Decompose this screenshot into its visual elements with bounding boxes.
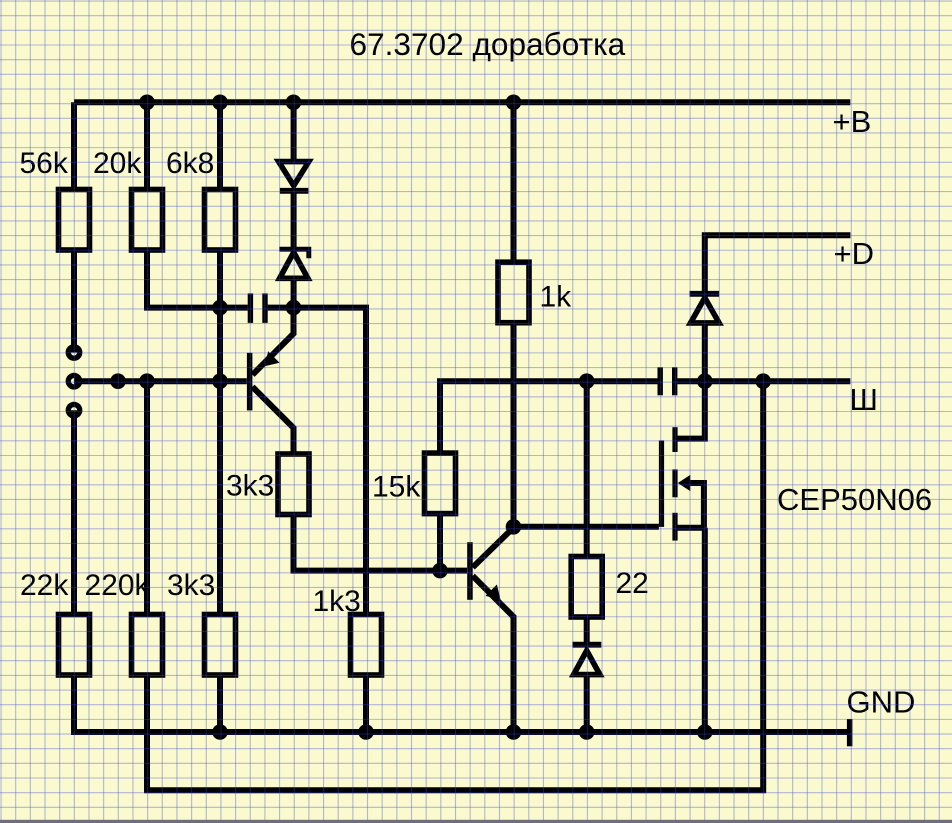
svg-text:22: 22	[616, 567, 649, 600]
wire +B top supply rail	[74, 99, 850, 105]
junction dot segment B / MOSFET drain	[697, 373, 713, 389]
resistor R1 56k	[59, 190, 90, 251]
junction dot segment A / 220k	[139, 373, 155, 389]
resistor R8 1k3	[351, 615, 382, 676]
transistor Q2 base bar	[467, 542, 473, 600]
wire node Ш segment B left part from 15k corner to C2	[440, 381, 658, 453]
connector pin 3 (open circle terminal)	[66, 402, 83, 419]
svg-text:56k: 56k	[20, 147, 69, 180]
wire 56k bottom lead to pin 1	[71, 250, 77, 353]
junction dot top rail / 6k8	[212, 95, 228, 111]
wire pin 3 down to 22k	[71, 410, 77, 614]
wire gate line to MOSFET gate	[514, 524, 659, 530]
wire MOSFET source down to GND rail	[702, 528, 708, 732]
wire node Ш segment B right part to terminal	[677, 378, 850, 384]
wire GND rail from 22k corner to terminal	[74, 675, 847, 732]
svg-text:+D: +D	[834, 236, 875, 271]
capacitor C2 plates	[660, 367, 675, 395]
MOSFET Q3 body stub with corner to source	[688, 483, 704, 528]
transistor Q1 emitter lead	[253, 308, 294, 375]
junction dot segment B / right return wire	[755, 373, 771, 389]
transistor Q2 emitter arrow	[486, 585, 501, 600]
junction dot GND / D4	[579, 724, 595, 740]
connector pin 2 (open circle terminal)	[66, 373, 83, 390]
resistor R3 6k8	[205, 190, 236, 251]
wire 6k8 column down through nodes to 3k3 body	[217, 250, 223, 615]
junction dot top rail / D1	[286, 95, 302, 111]
wire node Ш segment A from pin 2 to Q1 base	[74, 378, 247, 384]
resistor R5 220k	[132, 615, 163, 676]
wire 22 resistor top lead from node Ш	[584, 381, 590, 556]
transistor Q1 base bar	[247, 353, 253, 411]
resistor R4 22k	[59, 615, 90, 676]
svg-text:220k: 220k	[85, 569, 151, 602]
junction dot cap line / 6k8 column	[212, 300, 228, 316]
wire C1 right plate to node, right and down to 1k3	[268, 308, 366, 615]
transistor Q1 collector lead down to 3k3	[252, 387, 293, 454]
wire 20k top lead	[144, 102, 150, 189]
resistor R11 22	[571, 557, 602, 618]
junction dot top rail / 1k	[506, 95, 522, 111]
resistor R9 15k	[425, 453, 456, 513]
wire D2 anode down to node	[291, 278, 297, 307]
resistor R2 20k	[132, 190, 163, 251]
junction dot top rail / 20k	[139, 95, 155, 111]
resistor R6 3k3 bottom	[205, 615, 236, 676]
junction dot GND / MOSFET source	[697, 724, 713, 740]
diode D4 (pointing up)	[573, 645, 602, 675]
wire 3k3 bottom lead to GND rail	[217, 675, 223, 732]
junction dot segment B / 22 column	[579, 373, 595, 389]
wire 20k bottom lead down and right to capacitor C1	[147, 250, 248, 308]
capacitor C1 plates	[250, 293, 265, 323]
wire between 22 and D4	[584, 617, 590, 645]
wire D4 anode to GND rail	[584, 675, 590, 733]
wire 6k8 top lead	[217, 102, 223, 189]
junction dot 15k / Q2 base line	[432, 563, 448, 579]
resistor R7 3k3 middle	[278, 454, 309, 515]
wire between D1 and D2	[291, 191, 297, 249]
resistor R10 1k	[498, 262, 529, 323]
zener diode D2 (pointing up, cathode bar with right hook)	[279, 249, 308, 278]
MOSFET Q3 channel segment middle	[672, 469, 677, 497]
junction dot gate node 1k / Q2 collector / gate line	[506, 519, 522, 535]
svg-text:67.3702 доработка: 67.3702 доработка	[350, 26, 626, 62]
wire 3k3 bottom to horizontal node line to Q2 base	[294, 515, 468, 571]
svg-text:1k3: 1k3	[313, 585, 361, 618]
MOSFET Q3 body arrow	[678, 475, 691, 491]
wire 1k bottom lead down to gate node	[511, 323, 517, 527]
terminal GND end bar	[847, 719, 853, 746]
MOSFET Q3 channel segment bottom	[672, 513, 677, 541]
wire 1k top lead	[511, 102, 517, 262]
diode D3 (pointing up)	[690, 294, 720, 323]
wire 56k top lead	[71, 102, 77, 189]
svg-text:20k: 20k	[93, 147, 142, 180]
junction dot segment A / 6k8 column	[212, 373, 228, 389]
junction dot on segment A (stub)	[110, 373, 126, 389]
transistor Q2 emitter lead down to GND	[473, 576, 514, 732]
bottom canvas edge strip	[0, 820, 952, 823]
wire 220k bottom, bottom return wire, up to node Ш	[147, 381, 763, 790]
junction dot GND / Q2 emitter	[506, 724, 522, 740]
wire 1k3 bottom lead to GND rail	[363, 675, 369, 732]
transistor Q2 collector lead	[473, 528, 514, 568]
wire +D line from diode up and right	[705, 235, 851, 291]
MOSFET Q3 gate bar	[659, 441, 664, 527]
diode D1 (pointing down)	[279, 162, 309, 191]
wire 15k bottom lead	[437, 514, 443, 571]
junction dot node at Q1 emitter / D2 / C1	[286, 300, 302, 316]
wire D3 anode down to drain jog	[676, 323, 705, 439]
svg-text:6k8: 6k8	[166, 147, 214, 180]
connector pin 1 (open circle terminal)	[66, 344, 83, 361]
MOSFET Q3 channel segment top	[672, 427, 677, 452]
junction dot GND / 3k3	[212, 724, 228, 740]
transistor Q1 emitter arrow	[265, 351, 280, 366]
junction dot GND / 1k3	[358, 724, 374, 740]
MOSFET Q3 source stub	[676, 525, 705, 531]
wire 220k top lead	[144, 381, 150, 614]
wire D1/D2 diode chain top lead	[291, 102, 297, 161]
